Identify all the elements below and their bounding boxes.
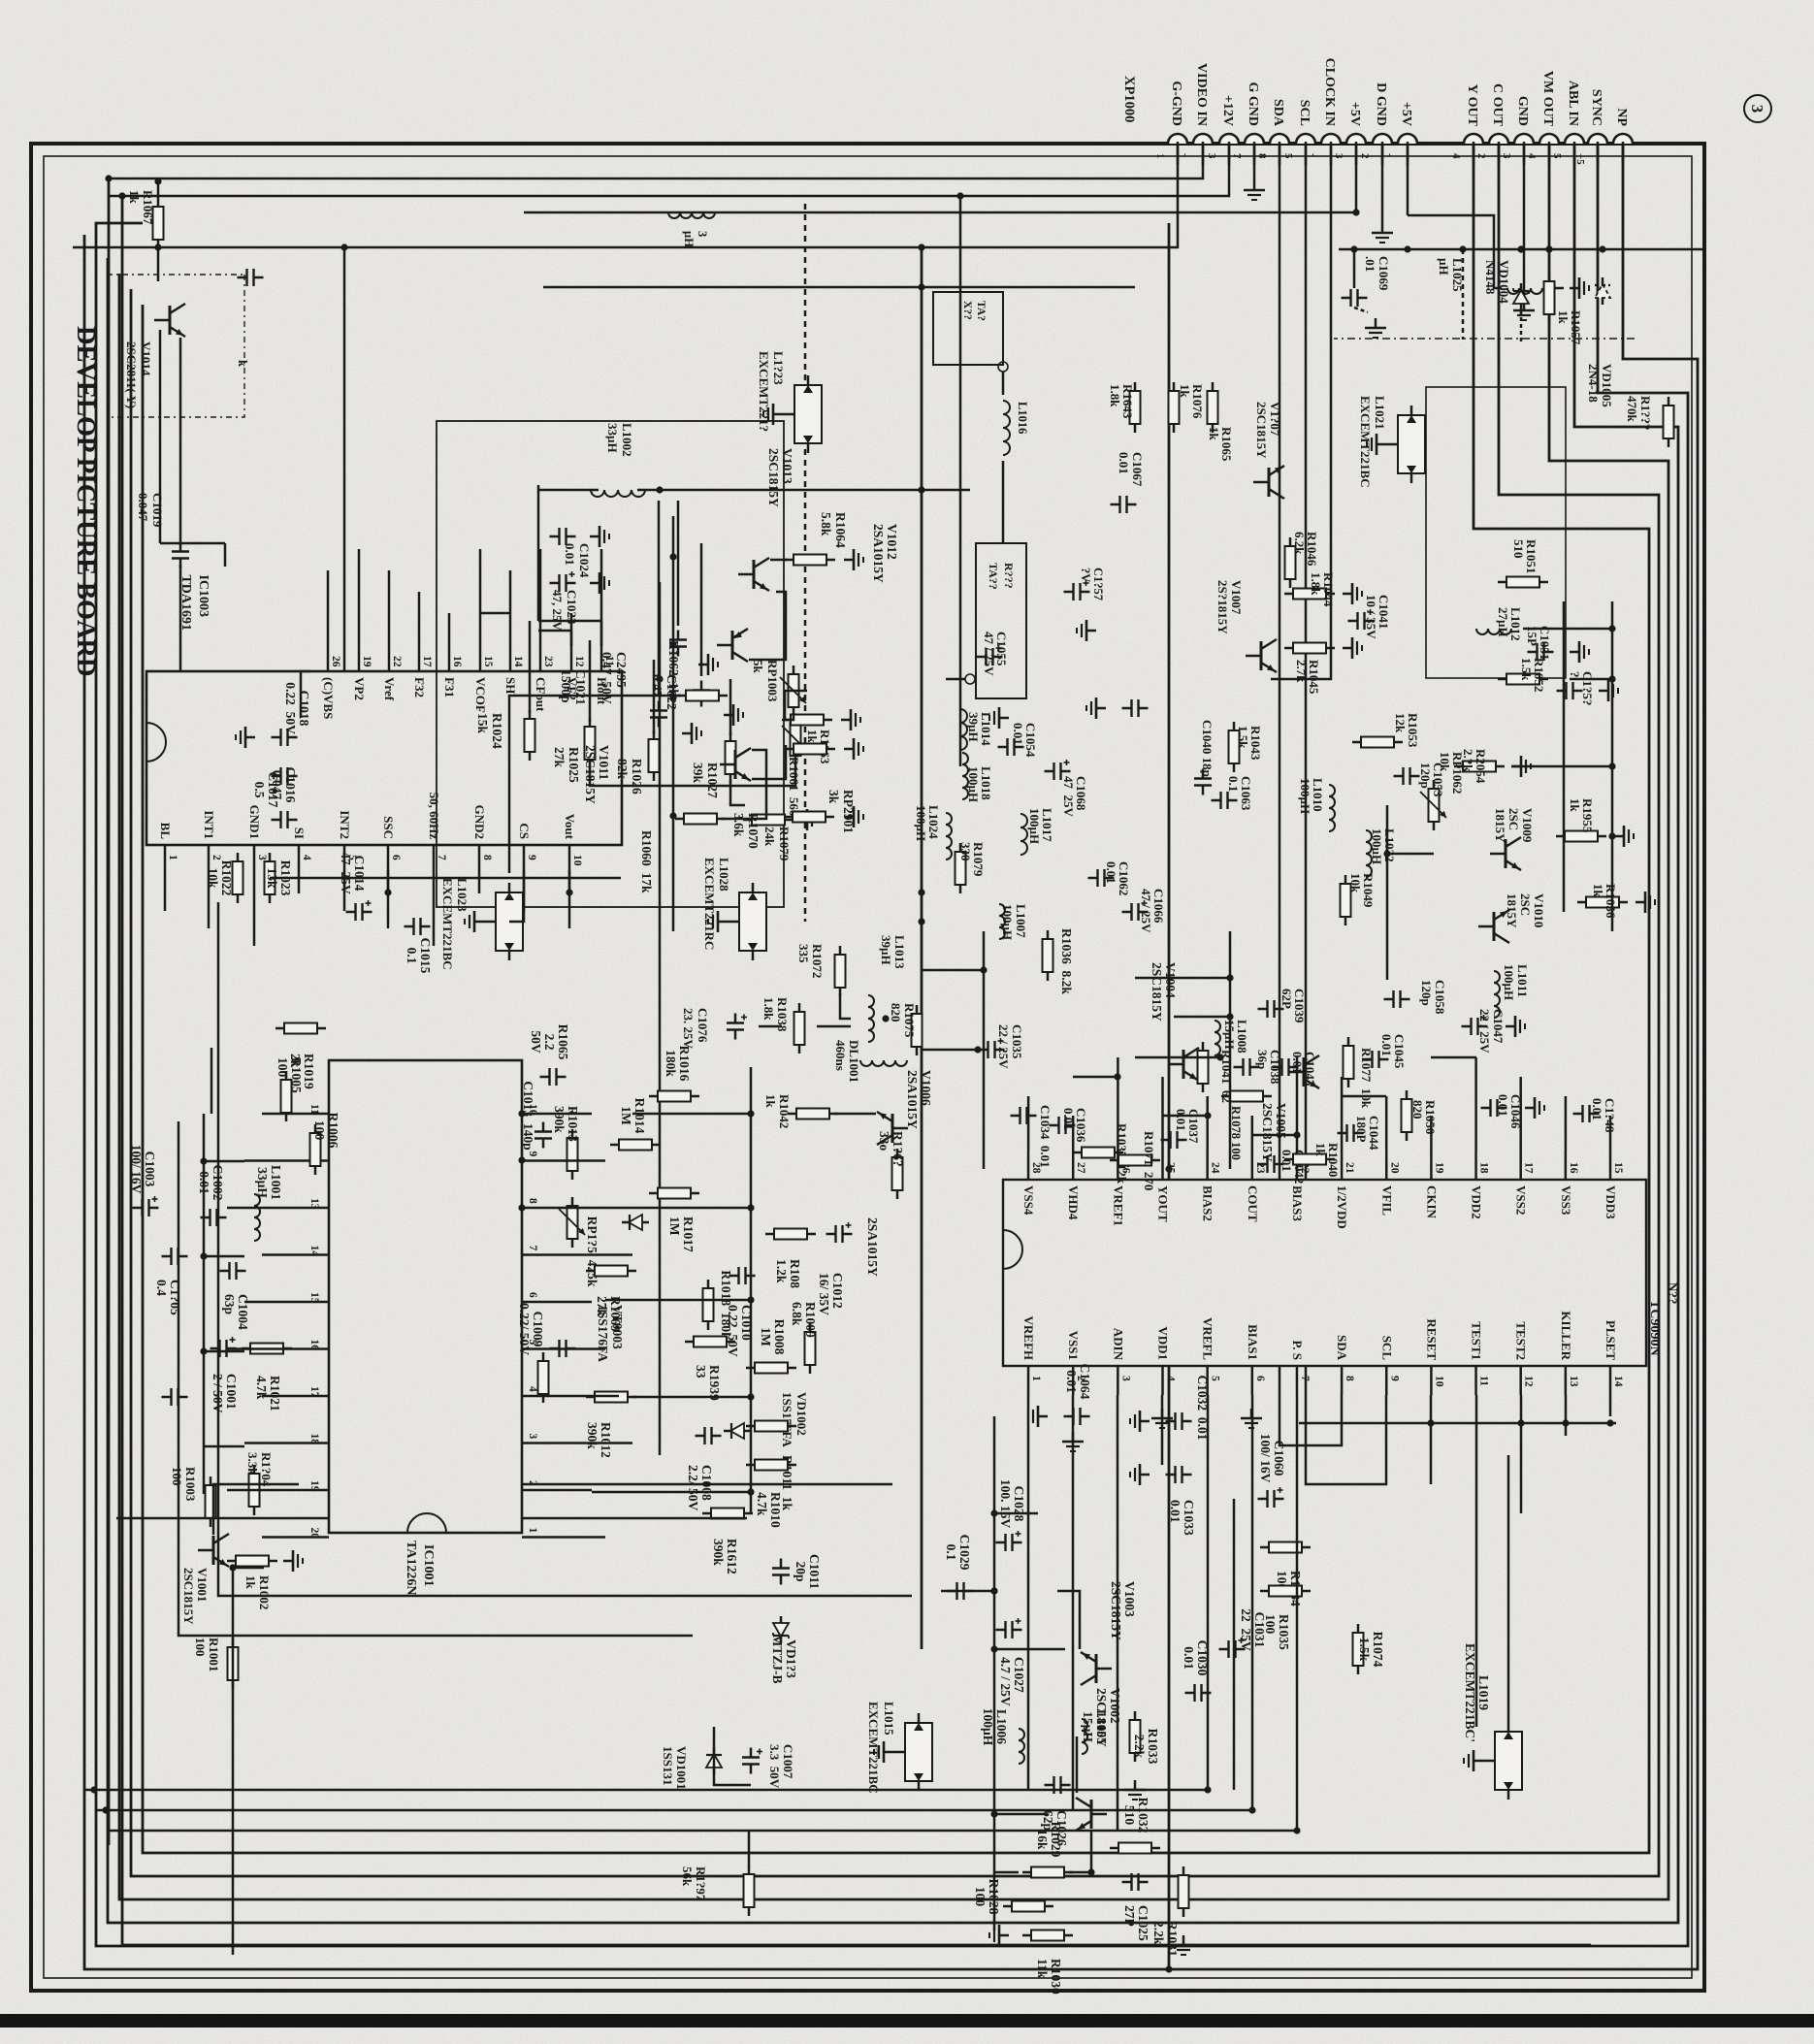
svg-text:24k: 24k — [762, 827, 777, 847]
svg-text:R1002: R1002 — [257, 1575, 272, 1609]
svg-text:V1013: V1013 — [780, 448, 794, 484]
svg-text:47 25V: 47 25V — [1061, 776, 1076, 818]
wire IC1001 pin 19 down — [227, 1489, 300, 1492]
resistor R1045 — [1284, 643, 1335, 654]
resistor R1039 — [685, 1337, 735, 1401]
svg-text:L1006: L1006 — [994, 1709, 1009, 1744]
filter L1015 — [893, 1713, 932, 1791]
svg-text:CLOCK IN: CLOCK IN — [1322, 58, 1337, 126]
svg-text:V1?07: V1?07 — [1268, 402, 1282, 437]
svg-text:0.5: 0.5 — [252, 782, 267, 798]
label L1013 — [879, 935, 907, 969]
svg-text:7: 7 — [527, 1246, 538, 1251]
svg-text:VD1002: VD1002 — [794, 1392, 809, 1436]
svg-text:2.?k: 2.?k — [1461, 749, 1475, 772]
svg-text:V1011: V1011 — [597, 745, 611, 780]
svg-text:VD1?3: VD1?3 — [784, 1639, 798, 1678]
resistor R1024 — [525, 710, 535, 761]
svg-text:335: 335 — [796, 944, 811, 963]
ground C1047 — [1506, 1016, 1525, 1037]
svg-text:C1024: C1024 — [577, 543, 592, 578]
wire net SDA — [1279, 144, 1281, 1180]
connector gap dash — [1426, 143, 1447, 146]
wire rail x1565b — [116, 1517, 329, 1520]
IC1002 pin 19 CKIN — [1430, 1151, 1433, 1180]
wire IC1002 pin row 6 — [1251, 1395, 1254, 1810]
wire mesh z2 g — [1387, 853, 1434, 856]
svg-text:3.3k: 3.3k — [245, 1452, 260, 1476]
resistor R1025 — [585, 718, 596, 768]
wire y1515 — [343, 247, 346, 671]
ground C1032 — [1130, 1411, 1150, 1432]
label R1053 — [1393, 713, 1420, 748]
svg-text:R1006: R1006 — [326, 1113, 340, 1149]
capacitor C1014 — [339, 852, 373, 921]
svg-text:16/ 35V: 16/ 35V — [817, 1273, 831, 1315]
resistor R1079x — [784, 812, 834, 823]
wire bus bottom2 — [122, 196, 1591, 1945]
capacitor C1064 — [1064, 1364, 1093, 1425]
label R1038 — [761, 997, 790, 1032]
svg-text:-: - — [1180, 153, 1191, 157]
filter L1023 — [484, 883, 523, 960]
label C1046 — [1496, 1094, 1523, 1129]
svg-text:C OUT: C OUT — [1490, 83, 1505, 127]
wire IC1001 pin 12 down — [244, 1159, 300, 1162]
svg-text:L1028: L1028 — [717, 858, 731, 892]
wire IC1003 pin 4 right — [298, 870, 301, 893]
svg-text:3: 3 — [527, 1434, 538, 1440]
svg-text:12k: 12k — [1393, 713, 1408, 733]
wire IC1001 pin 10 up — [551, 1113, 592, 1116]
IC1001 pin 6 — [522, 1301, 551, 1304]
label VD1001 — [661, 1746, 689, 1790]
svg-text:R1?04: R1?04 — [259, 1452, 274, 1487]
resistor R1031 — [1151, 1866, 1189, 1957]
connector pin +12V — [1219, 134, 1239, 144]
label L1016 — [1016, 402, 1029, 434]
wire ring net Y OUT — [143, 144, 1649, 1853]
resistor R1030 — [1022, 1930, 1073, 1995]
capacitor C1006 — [162, 1388, 188, 1406]
box TA regulator — [976, 543, 1026, 698]
wire IC1001 pin 6 up — [551, 1301, 592, 1304]
svg-text:R1035: R1035 — [1277, 1614, 1291, 1650]
wire IC1003 pin 10 right — [568, 870, 571, 928]
resistor R1069 — [586, 1266, 636, 1332]
wire IC1001 pin 4 up — [551, 1395, 619, 1398]
resistor R1064 — [785, 555, 835, 566]
inductor L1012 — [1476, 629, 1511, 634]
svg-text:390k: 390k — [552, 1106, 567, 1133]
wire ring net NP — [84, 144, 1698, 1969]
svg-text:C1003: C1003 — [143, 1152, 157, 1187]
IC1002 pin 23 COUT — [1251, 1151, 1254, 1180]
resistor R1050 — [1402, 1090, 1412, 1141]
svg-text:0.22/ 50V: 0.22/ 50V — [517, 1303, 532, 1355]
resistor R1016 — [649, 1046, 699, 1102]
wire tc pin link b — [1073, 1076, 1118, 1079]
resistor R1075 — [912, 1005, 923, 1055]
svg-text:1SS131: 1SS131 — [661, 1746, 675, 1785]
wire mesh z6 b — [538, 620, 601, 623]
capacitor C1048 — [1573, 1105, 1600, 1122]
svg-text:11: 11 — [308, 1104, 320, 1115]
resistor R1002 — [227, 1556, 277, 1567]
svg-text:14: 14 — [512, 656, 524, 667]
svg-text:390k: 390k — [585, 1422, 599, 1449]
label R1072 — [796, 944, 825, 978]
ground R1061 — [844, 738, 863, 760]
svg-text:1815Y: 1815Y — [1493, 808, 1507, 843]
svg-text:1.5k: 1.5k — [1357, 1638, 1372, 1662]
svg-text:100/ 16V: 100/ 16V — [129, 1145, 144, 1194]
wire mesh z5 d — [204, 1350, 244, 1353]
svg-text:R1060 17k: R1060 17k — [639, 830, 654, 893]
ground R1045 — [1343, 637, 1362, 659]
svg-text:17: 17 — [421, 656, 433, 667]
connector pin SDA — [1270, 134, 1289, 144]
label R1024 — [475, 713, 504, 749]
IC1002 pin 12 TEST2 — [1519, 1366, 1522, 1395]
IC1002 pin 20 VFIL — [1385, 1151, 1388, 1180]
svg-text:BL: BL — [158, 823, 173, 840]
wire bus mid2b — [1168, 1366, 1171, 1969]
label V1010 — [1505, 893, 1546, 928]
resistor R1019 — [275, 1023, 326, 1089]
svg-text:L1019: L1019 — [1476, 1675, 1491, 1710]
svg-text:16: 16 — [1568, 1162, 1579, 1174]
capacitor C1069 — [1342, 289, 1368, 307]
svg-text:R1074: R1074 — [1371, 1632, 1385, 1668]
svg-text:2SC1815Y: 2SC1815Y — [1094, 1688, 1109, 1747]
label C1054 — [1011, 723, 1038, 758]
ground C1064 — [1028, 1406, 1048, 1427]
capacitor C1047 — [1462, 1015, 1488, 1035]
wire x505b — [538, 489, 599, 492]
resistor R1079 — [956, 843, 966, 893]
wire mesh z1 a — [983, 931, 986, 1169]
svg-text:X??: X?? — [961, 301, 973, 320]
svg-text:1k: 1k — [763, 1094, 778, 1109]
ground L1026 — [1570, 277, 1589, 299]
filter L1019 — [1463, 1643, 1522, 1800]
label L1007 — [1000, 904, 1028, 940]
inductor L1016 — [1003, 401, 1010, 455]
IC1001 pin 15 — [300, 1301, 329, 1304]
ground R1002 — [283, 1550, 303, 1572]
resistor R1010 — [746, 1460, 796, 1528]
svg-text:120p: 120p — [1418, 762, 1433, 789]
wire IC1003 pin 16 — [448, 613, 451, 646]
op-amp IC1003 TDA1691 box — [146, 671, 622, 845]
svg-text:R1075: R1075 — [902, 1003, 917, 1038]
potentiometer RP1005 — [567, 1197, 578, 1248]
svg-text:VREF1: VREF1 — [1111, 1185, 1125, 1226]
resistor R1057 — [1544, 273, 1555, 323]
wire V1011 c — [722, 750, 766, 819]
svg-text:R1001: R1001 — [207, 1638, 221, 1671]
wire mesh z6 g — [270, 877, 621, 880]
wire IC1001 pin 18 down — [244, 1442, 300, 1444]
wire IC1002 pin row 8 — [1341, 1395, 1344, 1405]
connector pin ABL IN — [1565, 134, 1584, 144]
wire IC1001 pin 5 up — [551, 1347, 605, 1350]
connector pin VM OUT — [1539, 134, 1559, 144]
label R1075 — [889, 1003, 917, 1038]
inductor L1007 — [999, 904, 1005, 939]
svg-text:50, 60Hz: 50, 60Hz — [427, 793, 441, 840]
svg-text:6.8k: 6.8k — [790, 1302, 804, 1326]
label L1022 — [1370, 828, 1397, 864]
wire ring net ABL IN — [108, 144, 1678, 1923]
svg-text:2SC1815Y: 2SC1815Y — [181, 1568, 196, 1625]
svg-text:23. 25V: 23. 25V — [681, 1008, 696, 1050]
svg-text:2SC1815Y: 2SC1815Y — [1109, 1581, 1123, 1640]
label R1052 — [1519, 658, 1546, 692]
filter L1023a — [783, 375, 822, 453]
svg-text:VIDEO IN: VIDEO IN — [1194, 63, 1209, 126]
svg-text:C1016: C1016 — [283, 767, 298, 803]
label VD1004 — [1483, 260, 1511, 304]
capacitor C1025 — [1122, 1873, 1151, 1941]
label R1061 — [787, 757, 801, 816]
connector pin +5V — [1398, 134, 1417, 144]
svg-text:15k: 15k — [475, 713, 490, 734]
wire x349 dashdot — [1334, 338, 1635, 340]
label L1017 — [1027, 808, 1054, 844]
capacitor C1004 — [220, 1262, 251, 1330]
wire IC1003 pin 8 right — [478, 870, 481, 893]
capacitor C1057 — [1064, 580, 1090, 600]
wire ic1003 bottom — [301, 671, 310, 718]
label L1023 — [440, 878, 470, 970]
svg-text:TC9090N: TC9090N — [1647, 1300, 1662, 1356]
IC1001 pin 2 — [522, 1489, 551, 1492]
capacitor C2495 — [669, 631, 687, 657]
inductor L1022 — [1366, 830, 1372, 877]
svg-text:0.22 50V: 0.22 50V — [726, 1305, 740, 1357]
svg-text:27µH: 27µH — [1496, 607, 1510, 637]
svg-text:2SC2811( Y): 2SC2811( Y) — [124, 341, 139, 408]
inductor L1001 — [254, 1165, 283, 1241]
ground C1051 — [1570, 641, 1589, 663]
svg-text:100: 100 — [170, 1467, 184, 1486]
svg-text:C1021: C1021 — [573, 669, 588, 705]
capacitor C1044 — [1338, 1124, 1364, 1142]
wire VD1001 rail — [714, 1727, 751, 1785]
inductor L1002 — [591, 490, 645, 497]
svg-text:INT1: INT1 — [202, 810, 216, 839]
svg-text:3.3 50V: 3.3 50V — [767, 1744, 782, 1789]
IC1003 pin 17 F32 — [418, 646, 421, 671]
wire IC1002 pin row 12 — [1520, 1395, 1523, 1513]
capacitor C1024 — [550, 528, 576, 545]
wire subboard b — [589, 640, 592, 722]
label R1003 — [170, 1467, 198, 1502]
wire mesh z1 d — [1174, 1016, 1230, 1019]
svg-text:EXCEMT221BC: EXCEMT221BC — [866, 1702, 881, 1794]
wire IC1002 left pin 17 — [1519, 1077, 1522, 1151]
svg-text:V1006: V1006 — [919, 1070, 933, 1106]
svg-text:ADIN: ADIN — [1111, 1328, 1125, 1361]
svg-text:C1012: C1012 — [830, 1273, 845, 1309]
svg-text:9: 9 — [526, 855, 537, 860]
svg-text:VFIL: VFIL — [1379, 1185, 1394, 1216]
wire r1072 link — [840, 993, 851, 1019]
svg-text:0.1: 0.1 — [1226, 776, 1241, 792]
svg-text:510: 510 — [1122, 1805, 1137, 1826]
svg-text:R1026: R1026 — [630, 759, 644, 795]
label L1014 — [966, 712, 993, 746]
label V1014 — [124, 341, 153, 408]
svg-text:SDA: SDA — [1335, 1335, 1349, 1361]
svg-text:1k: 1k — [1178, 384, 1192, 399]
wire IC1003 SSC rail — [387, 870, 390, 892]
svg-text:R1067: R1067 — [141, 190, 155, 225]
inductor L1010 — [1329, 785, 1335, 831]
svg-text:14: 14 — [1612, 1376, 1624, 1387]
connector pin SCL — [1296, 134, 1315, 144]
svg-text:470k: 470k — [1625, 396, 1639, 423]
wire y1630 — [232, 1568, 235, 1955]
svg-text:33µH: 33µH — [255, 1167, 270, 1198]
svg-text:C1069: C1069 — [1377, 256, 1391, 291]
svg-text:1/2VDD: 1/2VDD — [1335, 1185, 1349, 1229]
svg-text:6.2k: 6.2k — [1292, 532, 1307, 555]
wire L1025 dashed — [1462, 249, 1465, 340]
IC1001 pin 10 — [522, 1113, 551, 1116]
svg-text:R1???: R1??? — [1638, 396, 1653, 430]
resistor R1067b — [877, 1131, 905, 1199]
IC1003 pin 12 VF2 — [570, 646, 573, 671]
transistor V1014 dashed box — [109, 275, 244, 417]
wire x505 — [637, 489, 970, 492]
filter L1028 — [728, 883, 766, 960]
wire IC1003 Vout rail — [568, 870, 571, 892]
wire mesh z6 a — [600, 621, 603, 646]
resistor R1023 — [265, 853, 294, 903]
resistor R1035 — [1260, 1586, 1311, 1650]
svg-text:18: 18 — [1478, 1162, 1490, 1174]
transistor V1011 — [583, 745, 751, 804]
wire IC1001 pin 3 up — [551, 1442, 632, 1444]
label L1021 — [1358, 396, 1387, 488]
IC1002 pin 16 VSS3 — [1565, 1151, 1568, 1180]
resistor R1077 — [1344, 1037, 1354, 1087]
svg-text:12: 12 — [1523, 1376, 1535, 1387]
svg-text:0.01: 0.01 — [1174, 1109, 1188, 1131]
connector pin D GND — [1373, 134, 1392, 144]
ground TA — [989, 707, 1009, 729]
label R1025 — [552, 747, 581, 783]
svg-text:1815Y: 1815Y — [1505, 893, 1519, 928]
label L1015 — [866, 1702, 896, 1794]
svg-text:4.7 / 25V: 4.7 / 25V — [998, 1657, 1013, 1706]
label C1047 — [1477, 1009, 1506, 1054]
svg-text:C1007: C1007 — [781, 1744, 795, 1779]
resistor R1078 — [1221, 1091, 1272, 1102]
svg-text:120p: 120p — [1419, 980, 1434, 1006]
wire mesh z1 c — [1135, 977, 1230, 980]
svg-text:C1033: C1033 — [1182, 1500, 1196, 1536]
wire net CLOCK IN — [1271, 144, 1331, 679]
IC1003 pin 15 VCOF — [479, 646, 482, 671]
svg-text:V1002: V1002 — [1108, 1688, 1122, 1724]
wire IC1002 left pin 16 — [1565, 1096, 1568, 1151]
diode VD1004 1N4148 — [1513, 283, 1529, 310]
svg-text:R1013: R1013 — [566, 1106, 580, 1142]
svg-text:SSC: SSC — [381, 816, 396, 839]
svg-text:390k: 390k — [711, 1539, 726, 1566]
transistor V1013 — [738, 448, 794, 591]
svg-text:27k: 27k — [552, 747, 567, 768]
svg-text:7: 7 — [1231, 153, 1243, 159]
svg-text:VT0003: VT0003 — [610, 1305, 625, 1349]
wire IC1002 left pin 15 — [1609, 1116, 1612, 1151]
svg-text:R1008: R1008 — [772, 1319, 787, 1355]
label C1057 — [1079, 568, 1105, 600]
svg-text:1M: 1M — [619, 1106, 633, 1125]
wire rail x1645 — [218, 902, 912, 1596]
connector pin GND — [1514, 134, 1534, 144]
svg-text:3: 3 — [1119, 1376, 1131, 1381]
svg-text:IC1003: IC1003 — [196, 574, 211, 617]
label C1019 — [136, 493, 165, 528]
IC1001 pin 9 — [522, 1159, 551, 1162]
svg-text:100µH: 100µH — [1027, 808, 1042, 844]
wire V1001 base — [213, 1484, 299, 1535]
capacitor C1010 — [726, 1267, 756, 1357]
capacitor C1034 — [1011, 1107, 1037, 1124]
wire IC1002 left pin 26 — [1117, 1057, 1119, 1151]
svg-text:L1025: L1025 — [1450, 258, 1465, 292]
ground GND pin — [1513, 301, 1535, 320]
wire taoutput — [946, 678, 965, 681]
svg-text:TA?: TA? — [975, 301, 987, 321]
svg-text:47 / 25V: 47 / 25V — [1139, 889, 1153, 933]
svg-text:C1025: C1025 — [1136, 1905, 1150, 1941]
svg-text:330: 330 — [958, 842, 973, 861]
svg-text:0.01: 0.01 — [1104, 861, 1118, 884]
svg-text:1k: 1k — [127, 190, 142, 205]
IC1003 pin 7 50, 60Hz — [433, 845, 436, 870]
IC1001 pin 3 — [522, 1442, 551, 1444]
resistor R1065 — [1208, 382, 1218, 433]
ground G GND — [1244, 180, 1265, 200]
svg-text:L1002: L1002 — [620, 423, 634, 457]
svg-text:VD1004: VD1004 — [1497, 260, 1511, 304]
filter L1023a ground — [763, 404, 783, 425]
svg-text:ABL IN: ABL IN — [1566, 81, 1580, 126]
resistor R1012 — [585, 1392, 636, 1458]
resistor R1051 — [1498, 577, 1548, 588]
wire net G GND — [1253, 144, 1256, 180]
ground TC a — [1241, 1409, 1262, 1428]
filter L1023 ground — [465, 911, 484, 932]
svg-text:R1064: R1064 — [833, 512, 848, 548]
svg-text:IC1001: IC1001 — [421, 1544, 436, 1587]
IC1003 pin 9 CS — [523, 845, 526, 870]
label R1079 — [958, 842, 986, 877]
IC1003 pin 1 BL — [164, 845, 167, 870]
capacitor C1026 — [1041, 1776, 1071, 1846]
label R1037 — [1115, 1123, 1129, 1184]
wire bus v1 — [84, 1789, 1208, 1792]
capacitor C1027 — [996, 1618, 1027, 1706]
wire mesh z6 e — [160, 542, 225, 545]
wire rail x1530b — [522, 1483, 892, 1486]
